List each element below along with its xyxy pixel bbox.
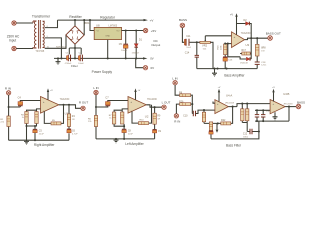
- svg-text:+V: +V: [230, 13, 233, 16]
- svg-text:10uF: 10uF: [186, 47, 191, 49]
- svg-text:1N4148: 1N4148: [240, 62, 248, 64]
- svg-text:Filter: Filter: [71, 64, 78, 68]
- svg-text:U4:A: U4:A: [226, 93, 232, 97]
- svg-text:R IN: R IN: [5, 86, 11, 90]
- svg-text:+5V: +5V: [151, 29, 156, 33]
- svg-text:120n: 120n: [261, 65, 267, 67]
- svg-text:C10: C10: [183, 115, 188, 118]
- svg-text:GND: GND: [105, 36, 110, 38]
- svg-text:VO: VO: [116, 31, 119, 33]
- svg-text:JRC4558: JRC4558: [225, 102, 235, 104]
- svg-text:8R8: 8R8: [261, 48, 266, 50]
- svg-text:100uF: 100uF: [121, 50, 128, 52]
- svg-text:U3: U3: [246, 43, 250, 47]
- svg-text:C14: C14: [185, 52, 190, 55]
- svg-text:Power Supply: Power Supply: [92, 70, 113, 74]
- svg-text:22uF: 22uF: [39, 133, 45, 135]
- svg-text:TDA2030: TDA2030: [241, 32, 251, 35]
- svg-text:R22: R22: [221, 119, 226, 122]
- svg-text:180n: 180n: [243, 136, 249, 138]
- svg-text:4.7uF: 4.7uF: [72, 133, 78, 135]
- svg-text:L OUT: L OUT: [162, 101, 171, 105]
- svg-text:BASS: BASS: [297, 101, 305, 105]
- svg-text:0V: 0V: [150, 57, 154, 61]
- svg-text:1R: 1R: [157, 119, 160, 121]
- svg-text:0V: 0V: [151, 66, 155, 70]
- svg-text:C12: C12: [243, 134, 248, 136]
- svg-text:Right Amplifier: Right Amplifier: [34, 143, 55, 147]
- svg-text:C11: C11: [186, 35, 191, 38]
- svg-text:BASS OUT: BASS OUT: [266, 31, 281, 35]
- svg-text:-: -: [234, 43, 235, 47]
- svg-text:U2: U2: [145, 115, 149, 119]
- svg-text:KBPC610: KBPC610: [56, 46, 66, 48]
- svg-text:100nF: 100nF: [78, 63, 84, 65]
- svg-text:-: -: [273, 110, 274, 113]
- svg-text:JRC4558: JRC4558: [283, 103, 293, 105]
- svg-text:R OUT: R OUT: [79, 100, 89, 104]
- svg-text:R17: R17: [242, 49, 247, 52]
- svg-text:Regulator: Regulator: [100, 16, 116, 20]
- svg-text:Left Amplifier: Left Amplifier: [125, 142, 144, 146]
- svg-text:LM7805: LM7805: [109, 24, 118, 27]
- svg-text:1N4007: 1N4007: [132, 53, 140, 55]
- svg-text:U8: U8: [96, 24, 100, 28]
- svg-text:Input: Input: [9, 39, 16, 43]
- svg-text:22uF: 22uF: [128, 133, 134, 135]
- svg-text:-: -: [217, 110, 218, 113]
- svg-text:Output: Output: [151, 43, 160, 47]
- svg-text:U4:B: U4:B: [283, 92, 289, 96]
- svg-text:R IN: R IN: [174, 119, 180, 123]
- svg-text:+V: +V: [150, 19, 154, 23]
- svg-text:1R: 1R: [72, 119, 75, 121]
- svg-text:Transformer: Transformer: [32, 15, 51, 19]
- svg-text:Bass Amplifier: Bass Amplifier: [224, 73, 245, 77]
- svg-text:Bass Filter: Bass Filter: [226, 144, 242, 148]
- svg-text:L IN: L IN: [172, 76, 177, 80]
- svg-text:Rectifier: Rectifier: [69, 15, 82, 19]
- svg-text:TR PCB: TR PCB: [35, 50, 44, 53]
- svg-text:TDA2030: TDA2030: [147, 98, 157, 101]
- svg-text:TDA2030: TDA2030: [60, 98, 70, 101]
- svg-text:L IN: L IN: [93, 86, 98, 90]
- svg-text:VR2: VR2: [202, 43, 208, 47]
- svg-text:BR1: BR1: [84, 21, 90, 25]
- svg-text:BASS: BASS: [179, 18, 187, 22]
